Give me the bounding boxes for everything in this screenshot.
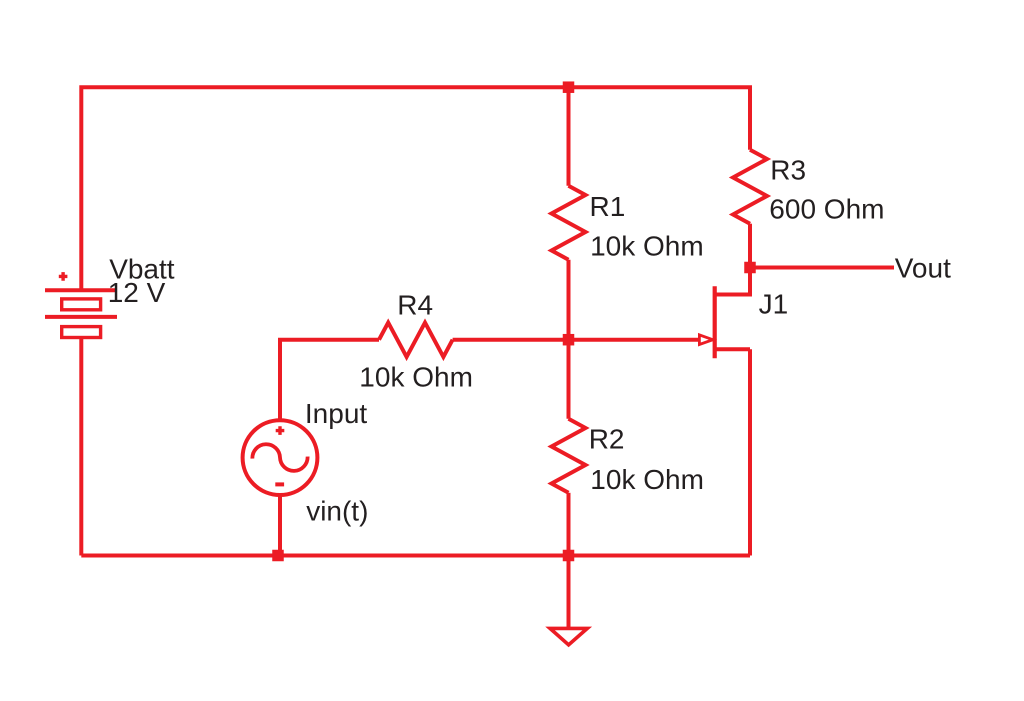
wire: J1 source down right column to bottom rail	[748, 349, 752, 555]
wire: Vout node to Vout label	[750, 266, 894, 270]
svg-text:10k Ohm: 10k Ohm	[590, 231, 704, 262]
svg-text:R3: R3	[770, 154, 806, 185]
voltage source Input (sine source)	[243, 420, 318, 495]
svg-text:Vout: Vout	[895, 253, 951, 284]
svg-text:vin(t): vin(t)	[306, 496, 368, 527]
ground	[550, 628, 587, 644]
wire: R3 bottom lead down to Vout node	[748, 224, 752, 268]
wire: battery + terminal up to top-left corner and top rail to R1 node	[81, 87, 568, 290]
wire: gate node down to R2 top	[567, 340, 571, 419]
transistor J1 (n-JFET)	[699, 286, 750, 358]
wire: Vout node down to J1 drain stub	[715, 268, 750, 295]
svg-text:R4: R4	[397, 289, 433, 320]
svg-text:600 Ohm: 600 Ohm	[769, 193, 884, 224]
wire: input source bottom lead down to bottom rail	[278, 495, 282, 556]
resistor R1	[552, 186, 586, 260]
battery positive terminal marker +	[59, 272, 68, 281]
wire: bottom rail	[81, 554, 750, 558]
resistor R4	[379, 323, 453, 357]
resistor R3	[733, 150, 767, 224]
wire: battery - terminal down to bottom-left corner	[79, 338, 83, 556]
junction: bottom rail / R2 / ground	[563, 550, 575, 562]
wire: R2 bottom to bottom rail node	[567, 493, 571, 556]
svg-text:R1: R1	[590, 191, 626, 222]
wire: R4 right lead to gate node	[453, 338, 569, 342]
svg-text:12 V: 12 V	[108, 277, 166, 308]
battery Vbatt	[45, 290, 117, 337]
svg-text:R2: R2	[589, 424, 625, 455]
junction: bottom rail / input source	[272, 550, 284, 562]
wire: R1 bottom lead down to gate node	[567, 260, 571, 340]
junction: gate node (R1/R2/R4/gate)	[563, 334, 575, 346]
svg-text:10k Ohm: 10k Ohm	[590, 464, 704, 495]
junction: top rail / R1	[563, 81, 575, 93]
wire: top rail from R1 node to top-right corner down to R3 top	[569, 87, 751, 150]
svg-text:Input: Input	[305, 398, 367, 429]
wire: input source top lead up and right to R4 left lead	[280, 340, 379, 421]
wire: R1 top lead from top rail node	[567, 87, 571, 186]
wire: ground stub	[567, 556, 571, 629]
svg-text:J1: J1	[759, 289, 789, 320]
junction: Vout node	[744, 262, 756, 274]
svg-text:10k Ohm: 10k Ohm	[359, 362, 473, 393]
wire: gate node to J1 gate arrow	[569, 338, 701, 342]
resistor R2	[552, 419, 586, 493]
